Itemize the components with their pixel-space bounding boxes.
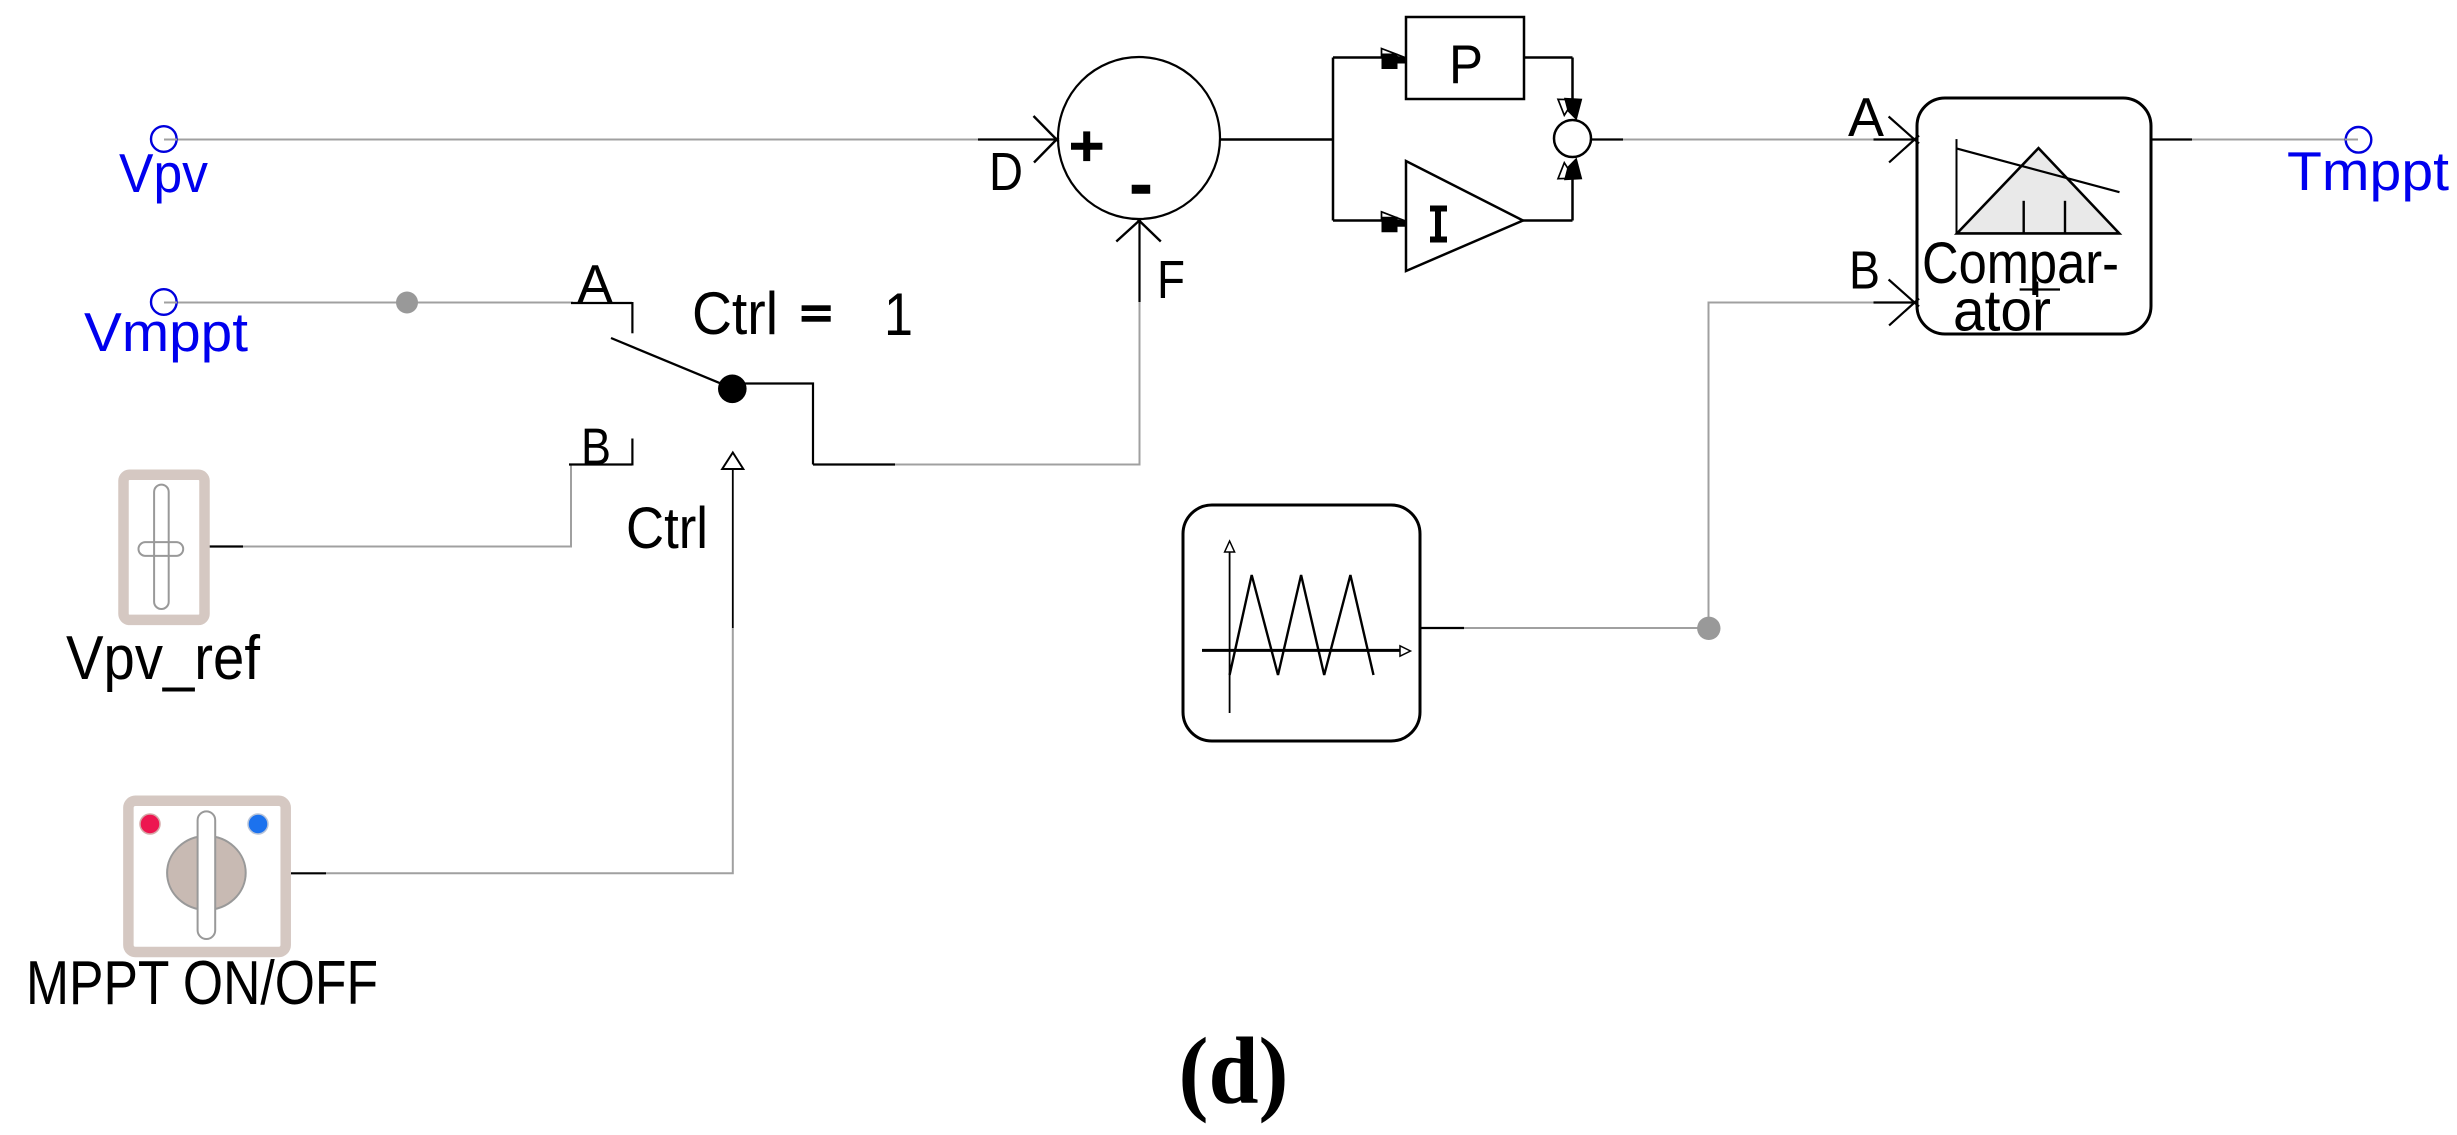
svg-text:(d): (d): [1179, 1018, 1289, 1124]
svg-text:Tmppt: Tmppt: [2287, 140, 2449, 202]
svg-text:MPPT ON/OFF: MPPT ON/OFF: [26, 949, 378, 1018]
svg-text:A: A: [1848, 86, 1884, 148]
svg-text:Ctrl: Ctrl: [626, 496, 708, 561]
svg-text:ator: ator: [1953, 279, 2051, 344]
svg-text:Ctrl: Ctrl: [692, 280, 778, 347]
svg-text:Vpv_ref: Vpv_ref: [66, 624, 261, 693]
svg-text:B: B: [1849, 241, 1880, 301]
svg-text:1: 1: [884, 281, 913, 348]
svg-text:P: P: [1449, 33, 1483, 95]
svg-text:Vmppt: Vmppt: [84, 301, 248, 363]
svg-text:F: F: [1157, 250, 1185, 310]
svg-text:D: D: [989, 142, 1023, 202]
svg-text:B: B: [581, 419, 611, 477]
svg-text:Vpv: Vpv: [119, 142, 208, 204]
svg-text:A: A: [577, 253, 613, 315]
